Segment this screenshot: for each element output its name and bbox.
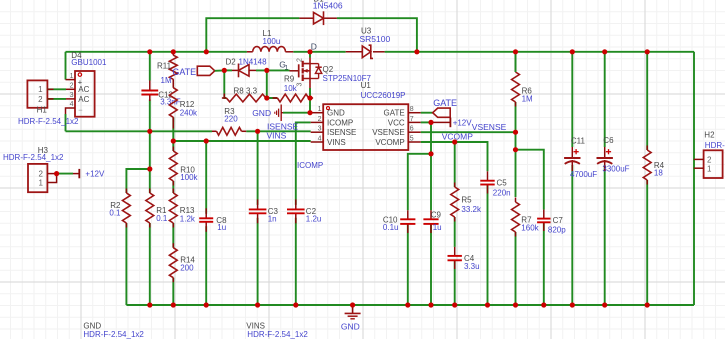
- svg-text:1n: 1n: [268, 215, 277, 224]
- svg-text:1: 1: [39, 179, 44, 188]
- mosfet body diode: [310, 63, 319, 65]
- svg-text:4: 4: [70, 101, 74, 108]
- svg-text:C7: C7: [553, 216, 564, 225]
- svg-text:VINS: VINS: [327, 138, 346, 147]
- wire mosfet drain node: [309, 52, 311, 58]
- inductor L1: [247, 51, 253, 53]
- wire gate node down to R8/R9 junction: [266, 70, 268, 98]
- svg-text:VINS: VINS: [267, 130, 287, 140]
- header H2: [704, 150, 723, 178]
- wire R8 to R9: [266, 97, 278, 99]
- junction dot ISENSE at C12 column: [147, 129, 152, 134]
- wire VSENSE branch to C7: [516, 150, 544, 210]
- resistor R12: [169, 88, 177, 118]
- svg-text:C5: C5: [497, 178, 508, 187]
- header H1: [27, 80, 47, 107]
- wire D4 pin1 to rail: [65, 52, 67, 80]
- svg-text:GATE: GATE: [384, 109, 405, 118]
- svg-text:1M: 1M: [161, 76, 172, 85]
- resistor R10: [169, 151, 177, 181]
- wire R13 to R14: [172, 223, 174, 248]
- svg-text:VSENSE: VSENSE: [472, 122, 507, 132]
- resistor R14: [169, 248, 177, 278]
- capacitor C10: [407, 210, 409, 219]
- capacitor C4: [454, 247, 456, 256]
- svg-text:D2: D2: [226, 58, 237, 67]
- wire C9 column: [430, 154, 432, 211]
- svg-text:HDR-F-2.54_1x2: HDR-F-2.54_1x2: [3, 153, 64, 162]
- wire C3 column: [257, 131, 259, 205]
- svg-text:1.2k: 1.2k: [180, 214, 196, 223]
- svg-text:33.2k: 33.2k: [461, 205, 482, 214]
- wire R14 to bus: [172, 278, 174, 305]
- svg-text:H1: H1: [37, 106, 48, 115]
- svg-text:3300uF: 3300uF: [602, 165, 629, 174]
- svg-text:ISENSE: ISENSE: [327, 128, 356, 137]
- bridge rectifier D4: [75, 71, 95, 117]
- junction dot R2 branch: [147, 166, 152, 171]
- wire R6 top: [515, 52, 517, 72]
- svg-text:3: 3: [318, 126, 322, 133]
- svg-text:Q2: Q2: [323, 65, 334, 74]
- svg-text:R9: R9: [284, 74, 295, 83]
- svg-text:18: 18: [654, 169, 663, 178]
- wire C11 column: [571, 52, 573, 147]
- +12V port U1 VCC: [444, 121, 451, 123]
- junction dot R8 R9: [264, 95, 269, 100]
- wire mosfet source down to GND row: [309, 98, 311, 113]
- junction dot VINS at C8: [204, 138, 209, 143]
- capacitor C6 polarized: [604, 147, 606, 158]
- resistor R3: [217, 127, 242, 135]
- wire C6 column: [604, 52, 606, 147]
- wire VCC node down: [430, 122, 432, 153]
- junction dot gate flag node: [222, 68, 227, 73]
- resistor R11: [169, 55, 177, 79]
- svg-text:HDR-F-2.54_1x2: HDR-F-2.54_1x2: [18, 117, 79, 126]
- resistor R5: [451, 187, 459, 217]
- svg-text:GND: GND: [327, 109, 345, 118]
- svg-text:−: −: [78, 105, 83, 114]
- ground symbol bottom bus: [352, 305, 354, 313]
- svg-text:2: 2: [70, 83, 74, 90]
- resistor R6: [512, 72, 520, 102]
- junction drain node: [307, 49, 312, 54]
- junction dot ISENSE at C3: [255, 129, 260, 134]
- junction dot VSENSE pin6: [513, 130, 518, 135]
- svg-text:1: 1: [70, 73, 74, 80]
- wire C12 R1 column: [149, 52, 151, 81]
- capacitor C9: [430, 210, 432, 219]
- junction dots rectified rail: [147, 49, 152, 54]
- wire R11 R12 column bottom to VINS: [172, 117, 174, 141]
- svg-text:1u: 1u: [217, 223, 226, 232]
- svg-text:C11: C11: [571, 136, 586, 145]
- junction dot VCOMP R5: [452, 139, 457, 144]
- svg-text:GND: GND: [341, 321, 360, 331]
- svg-text:6: 6: [410, 126, 414, 133]
- svg-text:HDR-F-2.54_1x2: HDR-F-2.54_1x2: [83, 330, 144, 339]
- svg-text:220: 220: [224, 115, 238, 124]
- resistor R2: [123, 193, 131, 223]
- diode D2 1N4148: [224, 69, 232, 71]
- svg-text:HDR-F-2.54_1x2: HDR-F-2.54_1x2: [247, 330, 308, 339]
- junction dot R9 source: [307, 95, 312, 100]
- wire bypass branch right: [337, 18, 417, 52]
- svg-text:+12V: +12V: [453, 118, 473, 127]
- wire GND pin row: [283, 112, 311, 114]
- diode D1 1N5406 bypass: [299, 17, 313, 19]
- diode U3 SR5100: [346, 51, 363, 53]
- wire R7 bottom to bus: [515, 232, 517, 305]
- junction dot VCC C10 branch: [428, 151, 433, 156]
- wire R6 bottom: [515, 102, 517, 132]
- wire H2 column right side: [693, 52, 695, 305]
- svg-text:10k: 10k: [284, 84, 298, 93]
- resistor R13: [169, 193, 177, 223]
- svg-text:1: 1: [38, 85, 43, 94]
- svg-text:U1: U1: [361, 81, 372, 90]
- net flag GATE right: [433, 108, 451, 117]
- svg-text:1N4148: 1N4148: [239, 58, 268, 67]
- svg-text:200: 200: [180, 264, 194, 273]
- svg-text:4700uF: 4700uF: [570, 170, 597, 179]
- svg-text:5: 5: [410, 136, 414, 143]
- junction dot H3 pins: [54, 171, 59, 176]
- junction dot D2 gate node: [264, 68, 269, 73]
- svg-text:1: 1: [318, 106, 322, 113]
- svg-text:1M: 1M: [522, 94, 533, 103]
- wire ground bus y=305: [126, 304, 694, 306]
- capacitor C12: [149, 81, 151, 91]
- junction dot VCC pin7: [428, 120, 433, 125]
- svg-text:HDR-F: HDR-F: [705, 141, 725, 150]
- svg-text:1: 1: [285, 64, 289, 71]
- svg-text:0.1: 0.1: [156, 214, 168, 223]
- svg-text:R5: R5: [461, 196, 472, 205]
- junction dots output rail: [414, 49, 419, 54]
- svg-text:2: 2: [707, 156, 712, 165]
- wire C10 bottom to bus: [407, 223, 409, 305]
- svg-text:2: 2: [39, 170, 44, 179]
- capacitor C2: [295, 199, 297, 209]
- svg-text:3.3u: 3.3u: [464, 262, 480, 271]
- svg-text:GATE: GATE: [433, 98, 457, 108]
- wire VCC branch to C10: [408, 154, 431, 211]
- wire R10 top: [172, 141, 174, 151]
- svg-text:0.1: 0.1: [109, 209, 121, 218]
- svg-text:GATE: GATE: [172, 67, 196, 77]
- wire VCOMP pin5 to C5: [421, 142, 488, 171]
- wire R2 branch: [126, 169, 149, 193]
- wire C7 bottom to bus: [543, 223, 545, 306]
- svg-text:SR5100: SR5100: [360, 34, 391, 44]
- svg-text:7: 7: [410, 116, 414, 123]
- resistor R4: [643, 150, 651, 180]
- svg-text:2: 2: [38, 95, 43, 104]
- wire D2 anode to gate node: [256, 69, 290, 71]
- svg-text:160k: 160k: [521, 224, 539, 233]
- svg-text:UCC26019P: UCC26019P: [361, 91, 406, 100]
- svg-text:2: 2: [297, 58, 304, 62]
- +12V port H3: [73, 173, 79, 175]
- svg-text:R8 3.3: R8 3.3: [234, 87, 258, 96]
- resistor R8: [226, 94, 266, 102]
- svg-text:C9: C9: [431, 211, 442, 220]
- wire R1 bottom to bus: [149, 223, 151, 305]
- svg-text:1.2u: 1.2u: [306, 215, 322, 224]
- svg-text:R11: R11: [157, 61, 172, 70]
- svg-text:C6: C6: [603, 136, 614, 145]
- svg-text:240k: 240k: [180, 108, 198, 117]
- wire C4 bottom to bus: [454, 260, 456, 305]
- capacitor C11 polarized: [571, 147, 573, 158]
- junction dots ground bus: [147, 302, 152, 307]
- svg-text:3: 3: [297, 83, 304, 87]
- wire ICOMP pin2 to C2: [296, 122, 311, 204]
- svg-text:H2: H2: [704, 131, 715, 140]
- ground symbol U1 pin1: [280, 105, 282, 122]
- wire VINS row: [173, 140, 310, 142]
- svg-text:220n: 220n: [493, 189, 511, 198]
- wire GATE flag right to pin8: [421, 112, 433, 114]
- svg-text:100u: 100u: [263, 37, 281, 46]
- wire bypass branch top: [206, 18, 299, 52]
- wire R4 column: [646, 52, 648, 150]
- svg-text:VSENSE: VSENSE: [372, 128, 404, 137]
- wire R2 bottom to bus: [125, 223, 127, 305]
- wire R10 to R13: [172, 181, 174, 193]
- wire VSENSE pin6 to node: [421, 131, 516, 133]
- resistor R1: [146, 193, 154, 223]
- capacitor C8: [205, 208, 207, 218]
- resistor R9: [277, 94, 308, 102]
- svg-text:2: 2: [318, 116, 322, 123]
- svg-text:AC: AC: [78, 95, 89, 104]
- wire D4 pin4 down to ISENSE row: [65, 114, 67, 131]
- junction dot source GND row: [307, 110, 312, 115]
- header H3: [28, 164, 47, 192]
- mosfet Q2 STP25N10F7: [290, 70, 299, 72]
- net flag GATE left: [197, 66, 215, 75]
- svg-text:1u: 1u: [433, 223, 442, 232]
- svg-text:3: 3: [70, 92, 74, 99]
- svg-text:8: 8: [410, 106, 414, 113]
- wire VCC pin7 to +12V port: [421, 121, 431, 123]
- wire R5 to C4: [454, 217, 456, 247]
- svg-text:VCC: VCC: [388, 118, 405, 127]
- svg-text:+12V: +12V: [85, 170, 105, 179]
- wire H3 to +12V port: [57, 173, 73, 175]
- svg-text:ICOMP: ICOMP: [327, 118, 353, 127]
- wire C5 bottom to bus: [487, 185, 489, 306]
- wire output rail right of U3: [385, 51, 694, 53]
- svg-text:100k: 100k: [180, 173, 198, 182]
- IC U1 UCC28019P: [323, 104, 408, 150]
- svg-text:1N5406: 1N5406: [313, 1, 343, 11]
- wire C2 bottom to bus: [295, 218, 297, 305]
- junction dot VSENSE C7 branch: [513, 147, 518, 152]
- svg-text:GND: GND: [252, 108, 271, 118]
- wire C8 column: [205, 141, 207, 214]
- svg-text:AC: AC: [78, 85, 89, 94]
- wire ISENSE row: [66, 130, 213, 132]
- wire GATE node vertical to R8: [224, 70, 226, 98]
- svg-text:1: 1: [707, 164, 712, 173]
- svg-text:0.1u: 0.1u: [383, 223, 399, 232]
- svg-text:VCOMP: VCOMP: [375, 138, 404, 147]
- svg-text:VCOMP: VCOMP: [442, 131, 474, 141]
- wire VCOMP branch to R5: [454, 142, 456, 187]
- wire VSENSE node down: [515, 132, 517, 150]
- capacitor C3: [257, 199, 259, 209]
- wire R9 to mosfet source vertical: [309, 97, 310, 99]
- svg-text:820p: 820p: [548, 226, 566, 235]
- capacitor C5: [487, 171, 489, 180]
- junction dot VINS at R10: [171, 138, 176, 143]
- svg-text:ICOMP: ICOMP: [297, 161, 323, 170]
- resistor R7: [512, 202, 520, 232]
- svg-text:4: 4: [318, 136, 322, 143]
- wire rectified rail y=51.8: [66, 51, 247, 53]
- capacitor C7: [543, 210, 545, 219]
- svg-text:GBU1001: GBU1001: [71, 58, 107, 67]
